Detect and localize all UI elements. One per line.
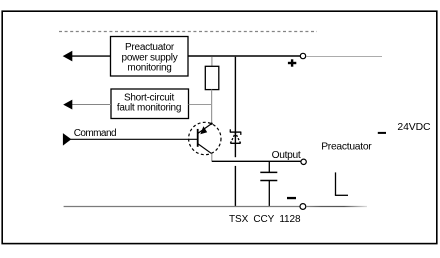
svg-text:TSX CCY 1128: TSX CCY 1128 xyxy=(229,214,301,225)
wire: collector drop to output line xyxy=(211,154,213,162)
svg-text:Command: Command xyxy=(74,128,116,139)
wire: gray stub right of + terminal xyxy=(306,56,382,58)
wire: bottom 0V bus xyxy=(64,206,301,208)
box: Preactuator power supply monitoring xyxy=(111,37,189,77)
arrow 2 (fault monitoring output, points left) xyxy=(72,104,112,106)
resistor xyxy=(205,66,219,89)
svg-text:24VDC: 24VDC xyxy=(397,122,431,133)
diode branch: wire below output line to 0V bus xyxy=(234,166,236,207)
arrow 1 (power supply monitoring output, points left) xyxy=(72,55,111,57)
plus sign xyxy=(288,59,296,66)
wire: top bus (+) xyxy=(188,55,300,57)
node: + terminal circle xyxy=(300,53,305,58)
wire: output line xyxy=(212,160,301,162)
wire: command to transistor base xyxy=(71,138,198,140)
svg-text:fault monitoring: fault monitoring xyxy=(117,103,181,114)
wire: fault box to resistor branch xyxy=(189,104,212,106)
wire: resistor to transistor emitter xyxy=(211,90,213,124)
load symbol (preactuator) xyxy=(335,172,348,195)
transistor Q1 (PNP) xyxy=(189,122,221,154)
wire: fading stub right of 0V terminal xyxy=(306,206,367,208)
Command arrow (points right) xyxy=(63,133,71,146)
zener diode D1 xyxy=(230,129,242,143)
svg-text:Preactuator: Preactuator xyxy=(321,142,372,153)
svg-text:Output: Output xyxy=(272,150,301,161)
capacitor C1 xyxy=(260,161,277,207)
minus sign near output return xyxy=(287,197,296,199)
diode branch: wire from + bus down xyxy=(234,57,236,157)
dash before 24VDC xyxy=(378,132,386,134)
node: 0V terminal circle xyxy=(300,204,306,210)
node: output terminal circle xyxy=(301,159,306,164)
dashed separator line xyxy=(59,31,317,33)
wire: stub from bus to resistor xyxy=(211,57,213,67)
svg-text:monitoring: monitoring xyxy=(127,63,171,74)
box: Short-circuit fault monitoring xyxy=(111,89,189,119)
